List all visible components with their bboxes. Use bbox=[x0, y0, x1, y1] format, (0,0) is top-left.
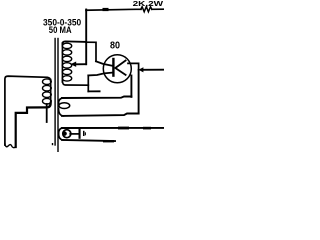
B+ junction arrowhead bbox=[138, 67, 143, 72]
wire junction down to 5V winding return bbox=[138, 70, 140, 114]
wire filament bottom down bbox=[130, 76, 132, 97]
svg-text:50 MA: 50 MA bbox=[49, 25, 72, 35]
scan blob on 2.5V wire right bbox=[143, 127, 151, 130]
scan blob on bottom wire bbox=[103, 140, 114, 142]
wire primary top to left bbox=[5, 76, 47, 145]
wire HV secondary bottom to tube bbox=[62, 81, 88, 85]
stray mark near core bottom bbox=[52, 143, 53, 145]
scan blob on top wire bbox=[103, 8, 109, 11]
rectifier tube V1 type 80 envelope bbox=[103, 55, 131, 83]
filament of tube V1 bbox=[115, 61, 125, 75]
svg-text:80: 80 bbox=[110, 40, 120, 51]
transformer T1 2.5V winding bbox=[62, 127, 164, 129]
wire resistor to right edge bbox=[152, 8, 164, 10]
wire top bus from node A to resistor bbox=[86, 8, 141, 11]
AC line cord squiggle bbox=[5, 144, 16, 148]
svg-text:2K,2W: 2K,2W bbox=[133, 0, 164, 8]
scan blob on 2.5V wire bbox=[118, 127, 129, 130]
wire step to rectifier top plate bbox=[86, 42, 96, 61]
contact tick 2 bbox=[85, 132, 86, 135]
center tap arrowhead bbox=[70, 62, 76, 67]
wire plate lead top (pin P1) bbox=[96, 61, 113, 66]
transformer T1 primary winding bbox=[47, 77, 51, 81]
wire B+ output to right edge bbox=[142, 69, 164, 71]
wire primary tap stub bbox=[46, 104, 48, 122]
resistor R1 2K,2W bbox=[141, 7, 152, 12]
contact tick 1 bbox=[83, 131, 85, 136]
center tap arrow (0 V tap) bbox=[75, 63, 86, 65]
wire vertical drop at x=86 (HV secondary top / tap bus) bbox=[85, 10, 87, 65]
plate bar inside tube bbox=[112, 59, 114, 76]
wire bottom plate lead (pin P2) bbox=[88, 73, 112, 76]
wire vertical x=88 node bbox=[87, 75, 89, 91]
pilot lamp loop on 2.5V winding bbox=[63, 130, 71, 138]
wire filament top to B+ junction bbox=[128, 63, 139, 69]
wire primary bottom with jog bbox=[16, 103, 51, 147]
wire lamp to bar bbox=[70, 133, 78, 135]
wire stub under tube bbox=[88, 90, 99, 92]
transformer T1 5V filament winding bbox=[62, 97, 131, 99]
transformer T1 core bbox=[54, 39, 56, 146]
lamp blob fill bbox=[62, 131, 66, 135]
transformer T1 HV secondary winding 350-0-350 bbox=[62, 41, 86, 44]
contact bar bbox=[79, 128, 81, 138]
